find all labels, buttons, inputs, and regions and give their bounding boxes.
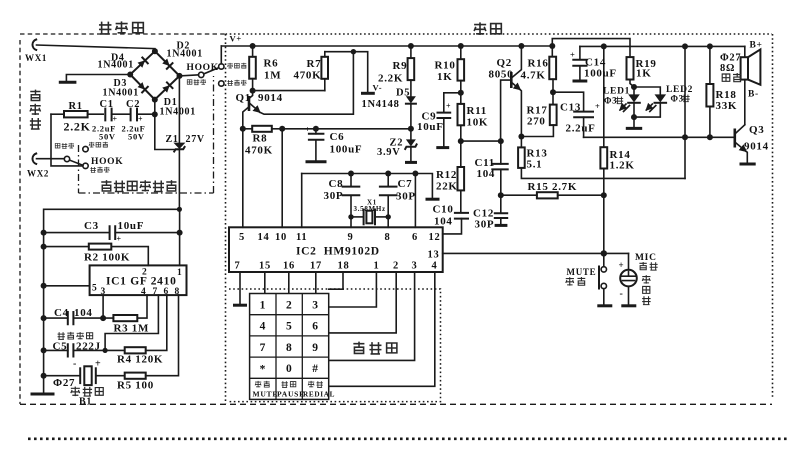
ground at IC1 column bottom bbox=[31, 376, 55, 394]
svg-text:C13: C13 bbox=[560, 102, 581, 114]
node x685/base line bbox=[682, 134, 688, 140]
svg-text:R8: R8 bbox=[253, 133, 268, 145]
svg-text:27V: 27V bbox=[186, 134, 205, 145]
capacitor C8 bbox=[324, 174, 360, 217]
svg-text:1K: 1K bbox=[437, 71, 452, 83]
label 公共端 (top hook) bbox=[187, 79, 206, 85]
diode D1 on bottom-right edge bbox=[162, 82, 173, 93]
svg-text:MUTE: MUTE bbox=[253, 390, 279, 399]
node R6 bottom bbox=[250, 88, 256, 94]
title 主板 bbox=[474, 22, 501, 35]
keypad digits row 2 bbox=[260, 321, 319, 333]
svg-text:33K: 33K bbox=[716, 100, 738, 112]
svg-text:HOOK: HOOK bbox=[91, 157, 123, 167]
svg-text:R1: R1 bbox=[69, 101, 83, 112]
svg-text:9: 9 bbox=[348, 232, 354, 243]
capacitor C1 bbox=[100, 99, 131, 124]
svg-text:9014: 9014 bbox=[744, 141, 769, 153]
svg-text:470K: 470K bbox=[245, 145, 273, 157]
svg-text:5: 5 bbox=[92, 284, 97, 294]
svg-text:-: - bbox=[73, 359, 77, 370]
label 涤纶电容 bbox=[58, 332, 93, 339]
resistor R2 bbox=[44, 244, 149, 266]
svg-text:470K: 470K bbox=[294, 70, 322, 82]
wire bridge right to hook bbox=[180, 75, 199, 76]
svg-text:1N4001: 1N4001 bbox=[167, 49, 203, 60]
svg-text:+: + bbox=[95, 359, 101, 370]
svg-text:Q2: Q2 bbox=[497, 57, 512, 69]
IC2 top pin numbers bbox=[239, 232, 440, 243]
node rail R14 bbox=[601, 43, 607, 49]
svg-text:5: 5 bbox=[239, 232, 245, 243]
svg-text:B+: B+ bbox=[750, 41, 763, 51]
frame: page bottom dotted rule bbox=[28, 437, 788, 440]
frame: dash-dot box 双联收线开关 bbox=[79, 76, 214, 193]
svg-text:R16: R16 bbox=[528, 58, 549, 70]
svg-text:100uF: 100uF bbox=[584, 68, 617, 80]
terminal WX2 bbox=[27, 154, 49, 179]
diode bridge wires bbox=[130, 51, 179, 99]
svg-text:15: 15 bbox=[259, 261, 271, 272]
svg-text:2.2uF: 2.2uF bbox=[566, 123, 596, 135]
label D3 1N4001 bbox=[103, 78, 139, 99]
node rail R16 bbox=[549, 43, 555, 49]
svg-text:30P: 30P bbox=[324, 190, 344, 202]
node bridge bottom bbox=[152, 97, 158, 103]
resistor R1 bbox=[51, 101, 103, 134]
node C7 top bbox=[385, 171, 391, 177]
wire pin16 to keypad bbox=[288, 272, 290, 294]
capacitor C6 bbox=[305, 125, 362, 162]
keypad digits row 1 bbox=[260, 300, 319, 312]
wire IC1 pin7 jog bbox=[105, 295, 158, 350]
svg-text:50V: 50V bbox=[128, 132, 145, 142]
resistor R9 bbox=[378, 46, 414, 96]
svg-text:2.2K: 2.2K bbox=[378, 73, 403, 85]
resistor R12 bbox=[436, 141, 464, 213]
svg-text:1N4001: 1N4001 bbox=[160, 107, 196, 118]
node rail R9 bbox=[408, 43, 414, 49]
svg-text:3: 3 bbox=[412, 261, 418, 272]
svg-text:+: + bbox=[117, 235, 122, 244]
frame: boards bottom dashed line bbox=[20, 403, 772, 405]
svg-text:3.58MHz: 3.58MHz bbox=[354, 205, 386, 213]
label D2 1N4001 bbox=[167, 41, 203, 60]
wire V+ drop at x685 bbox=[684, 46, 686, 178]
svg-text:Z1: Z1 bbox=[166, 134, 179, 145]
frame: ringer board dashed border bbox=[20, 34, 225, 404]
diode D5 bbox=[362, 88, 416, 129]
label Φ27 蜂鸣片 B1 bbox=[53, 377, 103, 408]
wire IC2 pin10 bbox=[281, 129, 283, 228]
wire R11 to C11 node bbox=[461, 140, 501, 142]
svg-text:C3: C3 bbox=[84, 220, 99, 232]
svg-text:C4: C4 bbox=[54, 307, 69, 319]
svg-text:WX2: WX2 bbox=[27, 169, 49, 179]
svg-text:D5: D5 bbox=[396, 88, 410, 99]
resistor R16 bbox=[521, 46, 557, 92]
svg-text:IC2 HM9102D: IC2 HM9102D bbox=[296, 246, 380, 258]
wire Z1 to IC1 column bbox=[44, 209, 180, 375]
svg-text:B-: B- bbox=[748, 90, 759, 100]
node R19 bottom bbox=[631, 84, 637, 90]
wire V+ rail bbox=[221, 45, 552, 47]
svg-text:R7: R7 bbox=[307, 58, 322, 70]
svg-text:5: 5 bbox=[286, 321, 292, 333]
node bridge top bbox=[152, 48, 158, 54]
wire R7 top to V- bbox=[325, 52, 368, 92]
svg-text:R10: R10 bbox=[435, 60, 456, 72]
node R7top/emitter bbox=[351, 49, 356, 54]
speaker B1 Φ27 8Ω bbox=[720, 41, 763, 125]
svg-text:+: + bbox=[570, 50, 576, 60]
wire IC2 pin5 bbox=[242, 129, 244, 228]
svg-text:2: 2 bbox=[142, 268, 147, 278]
svg-text:2.2K: 2.2K bbox=[64, 120, 91, 134]
keypad row 5: 静音 MUTE bbox=[253, 381, 279, 399]
svg-text:C5: C5 bbox=[53, 341, 68, 353]
resistor R10 bbox=[435, 46, 465, 93]
wire IC2 pin13 to MIC bbox=[443, 252, 629, 254]
switch HOOK (bottom) bbox=[64, 146, 88, 168]
svg-text:7: 7 bbox=[153, 287, 158, 297]
svg-text:30P: 30P bbox=[475, 219, 495, 231]
svg-text:#: # bbox=[312, 363, 318, 375]
resistor R18 bbox=[706, 46, 737, 137]
node rail R18 bbox=[707, 43, 713, 49]
svg-text:C10: C10 bbox=[433, 204, 454, 216]
wire pin1 column bbox=[179, 209, 181, 265]
zener Z1 bbox=[166, 76, 205, 209]
svg-text:+: + bbox=[446, 102, 451, 111]
svg-text:2: 2 bbox=[286, 300, 292, 312]
svg-text:R11: R11 bbox=[467, 105, 487, 117]
resistor R14 bbox=[600, 46, 634, 195]
svg-text:1N4148: 1N4148 bbox=[362, 99, 400, 110]
resistor R11 bbox=[458, 93, 489, 141]
wire bridge bottom down to Z1 cathode bbox=[155, 100, 179, 150]
svg-text:11: 11 bbox=[296, 232, 307, 243]
svg-text:R5 100: R5 100 bbox=[117, 380, 154, 392]
wire IC2 pin6 bbox=[414, 174, 416, 228]
diode D4 on top-left edge bbox=[137, 57, 148, 68]
node rail x685 bbox=[682, 43, 688, 49]
node X1 left bbox=[348, 214, 353, 219]
node pin5 bbox=[41, 283, 47, 289]
wire IC1 pin3 bbox=[102, 295, 104, 318]
node R10 bottom bbox=[458, 90, 464, 96]
svg-text:1M: 1M bbox=[264, 70, 281, 82]
svg-text:1K: 1K bbox=[636, 68, 651, 80]
svg-text:270: 270 bbox=[527, 116, 546, 128]
wire IC1 pin5 bbox=[44, 285, 90, 287]
svg-text:6: 6 bbox=[412, 232, 418, 243]
svg-text:HOOK: HOOK bbox=[187, 63, 219, 73]
label 双联收线开关 bbox=[101, 180, 176, 191]
wire WX2 to hook common bbox=[37, 158, 65, 160]
wire WX1 to bridge top bbox=[37, 45, 155, 51]
node R14/R15 bbox=[601, 192, 607, 198]
svg-text:17: 17 bbox=[310, 261, 322, 272]
svg-text:+: + bbox=[305, 125, 310, 134]
wire rail jog to R19 bbox=[552, 39, 630, 58]
svg-text:R4 120K: R4 120K bbox=[117, 354, 163, 366]
IC2 bottom pin numbers bbox=[235, 261, 438, 272]
svg-text:104: 104 bbox=[477, 168, 496, 180]
transistor Q1 bbox=[236, 52, 354, 129]
svg-text:4.7K: 4.7K bbox=[521, 70, 546, 82]
svg-text:C8: C8 bbox=[329, 178, 344, 190]
svg-text:8Ω: 8Ω bbox=[720, 63, 735, 74]
svg-text:13: 13 bbox=[428, 250, 440, 261]
svg-text:1: 1 bbox=[177, 268, 182, 278]
svg-text:8050: 8050 bbox=[489, 69, 514, 81]
wire pin18 to keypad bbox=[329, 272, 343, 289]
capacitor C10 bbox=[433, 204, 469, 234]
svg-text:0: 0 bbox=[286, 363, 292, 375]
node R8 right bbox=[279, 126, 285, 132]
node C3 left bbox=[41, 230, 47, 236]
resistor R19 bbox=[627, 57, 657, 87]
svg-text:4: 4 bbox=[141, 287, 146, 297]
node B1 left bbox=[41, 373, 47, 379]
svg-text:1N4001: 1N4001 bbox=[98, 60, 134, 71]
wire pin17 to keypad bbox=[315, 272, 317, 294]
capacitor C3 bbox=[44, 220, 180, 244]
node pin6 top bbox=[412, 171, 418, 177]
svg-text:R12: R12 bbox=[436, 169, 457, 181]
label 主板端 (bottom hook) bbox=[89, 142, 108, 148]
svg-text:R2 100K: R2 100K bbox=[84, 252, 130, 264]
svg-text:8: 8 bbox=[385, 232, 391, 243]
svg-text:1: 1 bbox=[260, 300, 266, 312]
svg-text:Φ27: Φ27 bbox=[720, 53, 741, 64]
node C3 right bbox=[177, 230, 183, 236]
keypad digits row 4 bbox=[260, 363, 319, 375]
wire IC2 pin11 bbox=[301, 174, 303, 228]
svg-text:3.9V: 3.9V bbox=[377, 147, 401, 158]
frame: main board dotted border top/left/right bbox=[226, 34, 773, 404]
label 2.2uF 50V (C2) bbox=[122, 124, 146, 142]
keypad digits row 3 bbox=[260, 342, 319, 354]
node C11/C12/R15 bbox=[498, 192, 504, 198]
svg-text:9014: 9014 bbox=[258, 92, 283, 104]
svg-text:7: 7 bbox=[260, 342, 266, 354]
node bridge right bbox=[177, 73, 183, 79]
zener Z2 bbox=[377, 129, 417, 163]
svg-text:*: * bbox=[260, 363, 266, 375]
ground at bridge left bbox=[59, 75, 130, 83]
wire pin3 to keypad bbox=[329, 272, 415, 360]
svg-text:4: 4 bbox=[260, 321, 266, 333]
svg-text:100uF: 100uF bbox=[330, 144, 363, 156]
capacitor C7 bbox=[380, 174, 416, 217]
wire IC2 pin9 bbox=[350, 217, 352, 227]
svg-text:50V: 50V bbox=[99, 132, 116, 142]
switch MUTE bbox=[597, 253, 612, 305]
node LED junction bbox=[631, 114, 637, 120]
svg-text:MIC: MIC bbox=[635, 253, 657, 263]
resistor R15 bbox=[501, 181, 604, 198]
label 2.2uF 50V (C1) bbox=[92, 124, 116, 142]
node C6 top bbox=[313, 126, 319, 132]
node C11 top bbox=[498, 138, 504, 144]
svg-text:Φ3: Φ3 bbox=[604, 96, 617, 106]
svg-text:C7: C7 bbox=[398, 178, 413, 190]
resistor R17 bbox=[521, 92, 556, 136]
resistor R13 bbox=[518, 137, 685, 179]
svg-text:R15 2.7K: R15 2.7K bbox=[528, 181, 578, 193]
svg-text:PAUSE: PAUSE bbox=[277, 390, 305, 399]
node bridge left bbox=[127, 72, 133, 78]
svg-text:C2: C2 bbox=[126, 99, 140, 110]
buzzer B1 bbox=[44, 359, 125, 386]
capacitor C11 bbox=[475, 141, 508, 195]
IC U2: IC2 HM9102D bbox=[229, 227, 443, 272]
capacitor C12 bbox=[473, 195, 507, 230]
node C5 left bbox=[41, 347, 47, 353]
switch HOOK (top) bbox=[199, 64, 225, 86]
node C4/R3 bbox=[100, 315, 106, 321]
microphone MIC bbox=[619, 253, 637, 305]
svg-text:14: 14 bbox=[258, 232, 270, 243]
diode D3 on bottom-left edge bbox=[137, 82, 148, 93]
node mute junction bbox=[601, 250, 607, 256]
node C2 junction bbox=[152, 111, 158, 117]
resistor R6 bbox=[249, 46, 281, 91]
svg-text:C6: C6 bbox=[330, 131, 345, 143]
svg-text:+: + bbox=[138, 115, 143, 124]
svg-text:6: 6 bbox=[312, 321, 318, 333]
node Z1/pin1 junction bbox=[177, 207, 182, 212]
resistor R5 bbox=[117, 295, 179, 391]
wire IC2 pin8 bbox=[387, 217, 389, 227]
ground LED bbox=[626, 117, 642, 128]
label 公共端 (bottom hook) bbox=[55, 143, 74, 149]
svg-text:16: 16 bbox=[283, 261, 295, 272]
resistor R3 bbox=[103, 295, 149, 334]
svg-text:30P: 30P bbox=[396, 191, 416, 203]
svg-text:1.2K: 1.2K bbox=[610, 160, 635, 172]
node C4 left bbox=[41, 315, 47, 321]
svg-text:Q1: Q1 bbox=[236, 92, 251, 104]
ground C7 rail bbox=[415, 174, 439, 200]
wire C8/C7 top rail bbox=[302, 173, 416, 175]
svg-text:+: + bbox=[595, 101, 601, 111]
node R11 bottom bbox=[458, 138, 464, 144]
diode D2 on top-right edge bbox=[162, 58, 173, 69]
node C5/R4 bbox=[103, 348, 108, 353]
title 铃声板 bbox=[99, 21, 143, 34]
capacitor C2 bbox=[126, 99, 155, 124]
wire hook to V+ rail bbox=[220, 46, 222, 64]
svg-text:Φ27: Φ27 bbox=[53, 377, 75, 389]
svg-text:REDIAL: REDIAL bbox=[303, 391, 335, 399]
node Q2 emitter/R17 bbox=[518, 134, 524, 140]
node X1 right bbox=[386, 214, 391, 219]
crystal X1 3.58MHz bbox=[351, 199, 388, 225]
wire pin4 to keypad bbox=[329, 272, 435, 386]
svg-text:8: 8 bbox=[286, 342, 292, 354]
keypad row 5: 暂停 PAUSE bbox=[277, 381, 305, 398]
node R2 left bbox=[41, 244, 47, 250]
svg-text:R9: R9 bbox=[393, 60, 408, 72]
resistor R7 bbox=[294, 52, 329, 91]
IC U1: IC1 GF 2410 bbox=[90, 265, 187, 297]
label MUTE 静音 bbox=[566, 267, 597, 286]
svg-text:WX1: WX1 bbox=[25, 53, 47, 63]
svg-text:5.1: 5.1 bbox=[527, 159, 543, 171]
node R18 bottom bbox=[707, 134, 713, 140]
node rail Q2 bbox=[518, 43, 524, 49]
svg-text:12: 12 bbox=[429, 232, 441, 243]
svg-text:104: 104 bbox=[434, 216, 453, 228]
svg-text:1N4001: 1N4001 bbox=[103, 88, 139, 99]
wire C14 rail segment bbox=[580, 45, 745, 47]
ground Q3 emitter bbox=[740, 163, 756, 166]
label 铃音端 (bottom hook) bbox=[90, 167, 109, 173]
capacitor C5 bbox=[44, 341, 106, 357]
node D5/Z2 bbox=[408, 126, 414, 132]
svg-text:18: 18 bbox=[338, 261, 350, 272]
terminal WX1 bbox=[25, 40, 47, 64]
svg-text:2: 2 bbox=[393, 261, 399, 272]
svg-text:C1: C1 bbox=[100, 99, 114, 110]
capacitor C4 bbox=[44, 307, 104, 324]
svg-text:R6: R6 bbox=[264, 58, 279, 70]
transistor Q3 bbox=[735, 124, 769, 163]
label MIC 话筒 驻极体 bbox=[635, 253, 658, 305]
svg-text:10uF: 10uF bbox=[118, 220, 145, 232]
node rail R10 bbox=[458, 43, 464, 49]
svg-text:1: 1 bbox=[374, 261, 380, 272]
svg-text:Q3: Q3 bbox=[749, 124, 764, 136]
svg-text:V+: V+ bbox=[230, 34, 242, 44]
svg-text:+: + bbox=[619, 260, 625, 270]
wire pin1 to keypad bbox=[329, 272, 377, 307]
svg-text:104: 104 bbox=[74, 307, 93, 319]
svg-text:+: + bbox=[113, 115, 118, 124]
transistor Q2 bbox=[489, 46, 522, 141]
svg-text:9: 9 bbox=[312, 342, 318, 354]
capacitor C9 bbox=[417, 93, 461, 148]
svg-text:222J: 222J bbox=[76, 341, 101, 353]
wire pin15 to keypad bbox=[264, 272, 266, 294]
keypad grid bbox=[250, 294, 329, 400]
resistor R4 bbox=[105, 295, 167, 365]
label 主板端 (main terminal) bbox=[227, 63, 246, 69]
svg-text:10K: 10K bbox=[467, 117, 489, 129]
node C8 top bbox=[348, 171, 354, 177]
wire C13 to Q3 base bbox=[584, 136, 735, 138]
svg-text:B1: B1 bbox=[79, 397, 92, 408]
svg-text:MUTE: MUTE bbox=[567, 267, 597, 277]
resistor R8 bbox=[243, 126, 411, 157]
LED LED2 bbox=[634, 85, 693, 117]
keypad row 5: 重拨 REDIAL bbox=[303, 381, 335, 399]
svg-text:22K: 22K bbox=[436, 181, 458, 193]
svg-text:7: 7 bbox=[235, 261, 241, 272]
node rail R6 bbox=[250, 43, 256, 49]
label D1 1N4001 bbox=[160, 97, 196, 118]
label D4 1N4001 bbox=[98, 53, 134, 71]
svg-text:-: - bbox=[620, 289, 624, 300]
wire R6-R7 bottom bbox=[253, 90, 325, 92]
wire R14 node down to mute line bbox=[603, 195, 605, 253]
label 铃音端 (ring terminal) bbox=[227, 80, 246, 86]
frame: keypad board dotted box bbox=[229, 289, 441, 402]
svg-text:Φ3: Φ3 bbox=[671, 94, 684, 104]
